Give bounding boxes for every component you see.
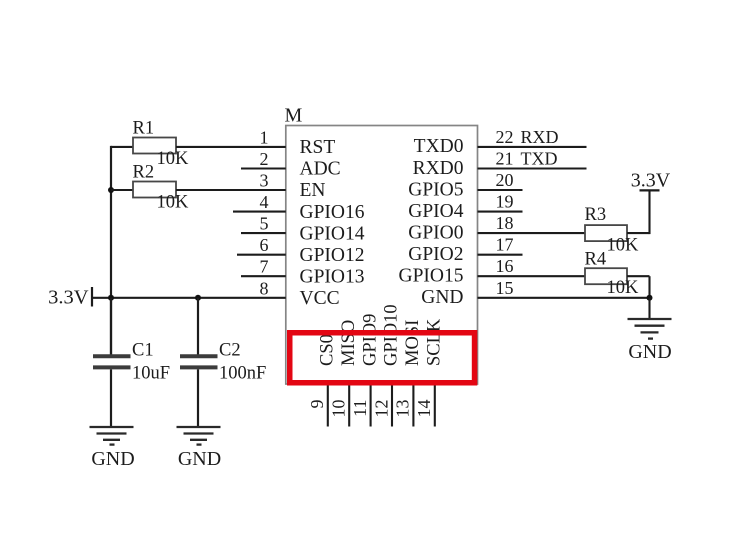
capacitor C2 (197, 298, 199, 355)
svg-text:GPIO15: GPIO15 (398, 266, 463, 287)
wire pin18 to R3 (478, 232, 586, 234)
wire R4 down to pin15 net (627, 275, 650, 277)
wire rail to R1 (111, 146, 133, 148)
svg-text:TXD0: TXD0 (414, 136, 464, 157)
svg-text:R3: R3 (585, 205, 607, 225)
svg-text:ADC: ADC (300, 159, 341, 180)
wire C2 to ground (197, 369, 199, 427)
wire pin22 RXD (478, 146, 587, 148)
svg-text:GPIO5: GPIO5 (408, 179, 463, 200)
wire pin16 to R4 (478, 275, 586, 277)
wire left vertical rail (110, 146, 112, 355)
svg-text:1: 1 (260, 127, 269, 147)
wire pin21 TXD (478, 167, 587, 169)
wire pin19 stub (478, 211, 523, 213)
svg-text:9: 9 (307, 400, 327, 409)
svg-text:RST: RST (300, 137, 336, 158)
svg-text:6: 6 (260, 235, 269, 255)
wire pin11 stub (370, 384, 372, 427)
wire pin13 stub (412, 384, 414, 427)
resistor R3 (585, 225, 627, 241)
svg-text:7: 7 (260, 257, 269, 277)
wire R1 to pin1 (176, 146, 286, 148)
svg-text:GND: GND (421, 287, 463, 308)
resistor R1 (133, 138, 176, 154)
wire pin2 stub (241, 167, 286, 169)
svg-text:GND: GND (628, 341, 671, 363)
svg-text:MOSI: MOSI (403, 320, 423, 366)
wire pin12 stub (391, 384, 393, 427)
svg-text:4: 4 (260, 192, 269, 212)
svg-text:GPIO0: GPIO0 (408, 222, 463, 243)
power bar left (91, 287, 93, 307)
svg-text:20: 20 (496, 170, 514, 190)
wire pin10 stub (348, 384, 350, 427)
wire pin17 stub (478, 254, 523, 256)
svg-text:GPIO4: GPIO4 (408, 201, 464, 222)
svg-text:GPIO12: GPIO12 (300, 245, 365, 266)
junction rail/R2 (108, 187, 114, 193)
IC U/M body (286, 126, 478, 385)
capacitor C1 (110, 298, 112, 355)
wire down to ground (648, 298, 650, 319)
wire R3 to 3.3V (627, 232, 650, 234)
svg-text:GPIO16: GPIO16 (300, 202, 365, 223)
svg-text:13: 13 (393, 400, 413, 418)
ground C1 (90, 427, 134, 445)
highlight red box (290, 333, 475, 383)
svg-text:18: 18 (496, 213, 514, 233)
svg-text:R4: R4 (585, 250, 607, 270)
svg-text:3.3V: 3.3V (631, 170, 671, 192)
wire pin5 stub (241, 232, 286, 234)
svg-text:M: M (285, 105, 303, 127)
svg-text:SCLK: SCLK (425, 318, 445, 366)
svg-text:14: 14 (414, 400, 434, 418)
svg-text:10K: 10K (607, 236, 640, 256)
svg-text:TXD: TXD (521, 149, 558, 169)
svg-text:17: 17 (496, 235, 514, 255)
svg-text:CS0: CS0 (318, 334, 338, 366)
svg-text:10K: 10K (607, 278, 640, 298)
svg-text:10: 10 (329, 400, 349, 418)
wire pin15 GND (478, 297, 650, 299)
svg-text:16: 16 (496, 256, 514, 276)
svg-text:10uF: 10uF (132, 363, 170, 383)
wire VCC rail (92, 297, 286, 299)
junction rail/VCC (108, 295, 114, 301)
svg-text:10K: 10K (157, 149, 190, 169)
svg-text:GPIO9: GPIO9 (360, 314, 380, 366)
wire C1 to ground (110, 369, 112, 427)
svg-text:GPIO13: GPIO13 (300, 266, 365, 287)
svg-text:19: 19 (496, 192, 514, 212)
svg-text:RXD: RXD (521, 127, 559, 147)
svg-text:GND: GND (91, 448, 134, 470)
svg-text:MISO: MISO (339, 320, 359, 366)
svg-text:5: 5 (260, 214, 269, 234)
wire pin6 stub (237, 254, 286, 256)
svg-text:3: 3 (260, 171, 269, 191)
svg-text:EN: EN (300, 180, 326, 201)
svg-text:RXD0: RXD0 (413, 158, 464, 179)
svg-text:GND: GND (178, 448, 221, 470)
power bar 3.3V right (640, 189, 660, 191)
wire R2 to pin3 (176, 189, 286, 191)
ground C2 (177, 427, 221, 445)
svg-text:C1: C1 (132, 341, 154, 361)
svg-text:12: 12 (371, 400, 391, 418)
svg-text:22: 22 (496, 127, 514, 147)
svg-text:C2: C2 (219, 341, 241, 361)
wire pin14 stub (434, 384, 436, 427)
wire pin9 stub (327, 384, 329, 427)
resistor R4 (585, 268, 627, 284)
svg-text:VCC: VCC (300, 288, 340, 309)
svg-text:11: 11 (350, 400, 370, 417)
junction R4/pin15 (647, 295, 653, 301)
resistor R2 (133, 182, 176, 198)
svg-text:R1: R1 (133, 119, 155, 139)
svg-text:R2: R2 (133, 163, 155, 183)
svg-text:21: 21 (496, 149, 514, 169)
ground right (628, 319, 672, 339)
wire pin7 stub (241, 275, 286, 277)
svg-text:GPIO2: GPIO2 (408, 244, 463, 265)
svg-text:3.3V: 3.3V (48, 287, 89, 309)
svg-text:GPIO14: GPIO14 (300, 223, 365, 244)
wire pin20 stub (478, 189, 523, 191)
svg-text:10K: 10K (157, 193, 190, 213)
svg-text:2: 2 (260, 149, 269, 169)
svg-text:8: 8 (260, 278, 269, 298)
svg-text:15: 15 (496, 278, 514, 298)
svg-text:100nF: 100nF (219, 363, 266, 383)
wire pin4 stub (233, 211, 286, 213)
wire rail to R2 (111, 189, 133, 191)
junction C2/VCC (195, 295, 201, 301)
